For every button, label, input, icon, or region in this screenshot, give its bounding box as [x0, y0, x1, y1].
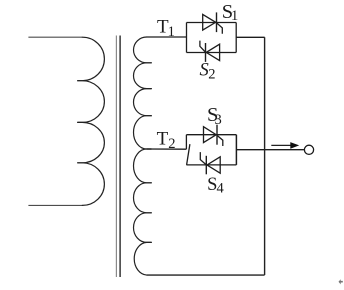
svg-text:4: 4 — [217, 181, 225, 197]
svg-text:3: 3 — [215, 112, 222, 128]
svg-text:1: 1 — [168, 24, 175, 40]
svg-text:T: T — [157, 129, 169, 150]
svg-text:2: 2 — [168, 136, 175, 152]
svg-text:2: 2 — [208, 67, 215, 83]
svg-text:1: 1 — [231, 8, 238, 24]
